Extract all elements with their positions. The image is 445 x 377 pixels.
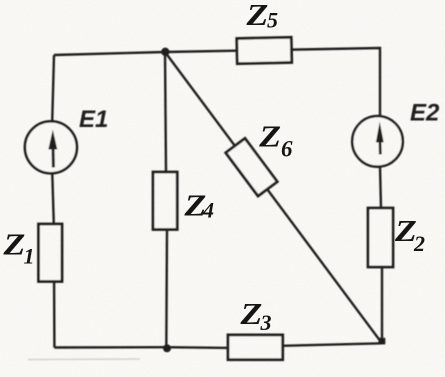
source E1 — [25, 121, 77, 173]
label Z3 — [239, 296, 271, 335]
resistor Z6 — [226, 138, 278, 196]
node top junction — [161, 48, 169, 56]
wire right vertical — [380, 116, 382, 343]
resistor Z3 — [228, 335, 283, 360]
resistor Z2 — [368, 208, 393, 267]
resistor Z4 — [153, 172, 177, 230]
label Z6 — [258, 119, 293, 162]
wire bottom horizontal — [54, 343, 382, 348]
resistor Z5 — [237, 37, 292, 63]
label Z4 — [183, 188, 214, 223]
node bottom-right — [379, 338, 386, 345]
node bottom junction — [163, 344, 171, 352]
wire top-right horizontal and right drop — [165, 48, 380, 116]
source E1 arrow — [48, 130, 57, 168]
source E2 arrow — [376, 122, 384, 155]
wire left vertical — [52, 55, 55, 348]
wire middle vertical — [165, 52, 167, 347]
label Z1 — [2, 227, 34, 269]
label Z5 — [245, 0, 278, 33]
faint scan smear bottom-left — [28, 358, 140, 361]
wire top-left horizontal — [54, 52, 165, 55]
label Z2 — [394, 213, 425, 256]
resistor Z1 — [39, 224, 63, 282]
wire diagonal — [165, 52, 382, 343]
source E2 — [352, 116, 403, 167]
